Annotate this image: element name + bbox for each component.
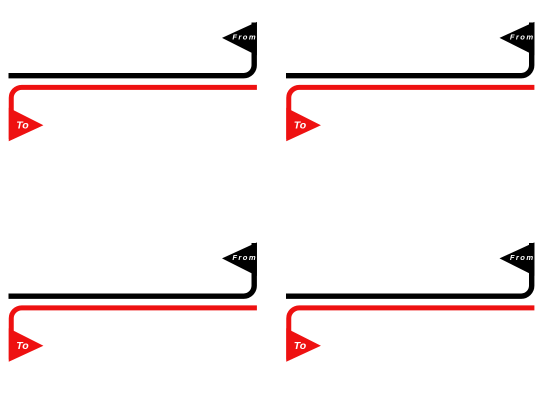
- motif bottom-left: [9, 242, 257, 361]
- wire black From-line TR: [286, 23, 532, 76]
- svg-text:To: To: [294, 340, 307, 352]
- flag To TR: [286, 108, 321, 141]
- wire black From-line BL: [9, 243, 255, 296]
- wire red To-line TR: [289, 87, 535, 139]
- motif top-left: [9, 22, 257, 141]
- svg-text:From: From: [510, 253, 535, 262]
- svg-text:To: To: [16, 340, 29, 352]
- wire red To-line TL: [11, 87, 257, 139]
- flag From BR: [500, 242, 535, 276]
- wire black From-line TL: [9, 23, 255, 76]
- flag From TL: [222, 22, 257, 56]
- svg-text:From: From: [232, 32, 257, 41]
- motif bottom-right: [286, 242, 534, 361]
- wire red To-line BR: [289, 308, 535, 360]
- flag To BR: [286, 328, 321, 361]
- svg-text:From: From: [232, 253, 257, 262]
- svg-text:From: From: [510, 32, 535, 41]
- flag From TR: [500, 22, 535, 56]
- motif top-right: [286, 22, 534, 141]
- wire black From-line BR: [286, 243, 532, 296]
- flag From BL: [222, 242, 257, 276]
- svg-text:To: To: [294, 120, 307, 132]
- wire red To-line BL: [11, 308, 257, 360]
- flag To BL: [9, 328, 44, 361]
- svg-text:To: To: [16, 120, 29, 132]
- flag To TL: [9, 108, 44, 141]
